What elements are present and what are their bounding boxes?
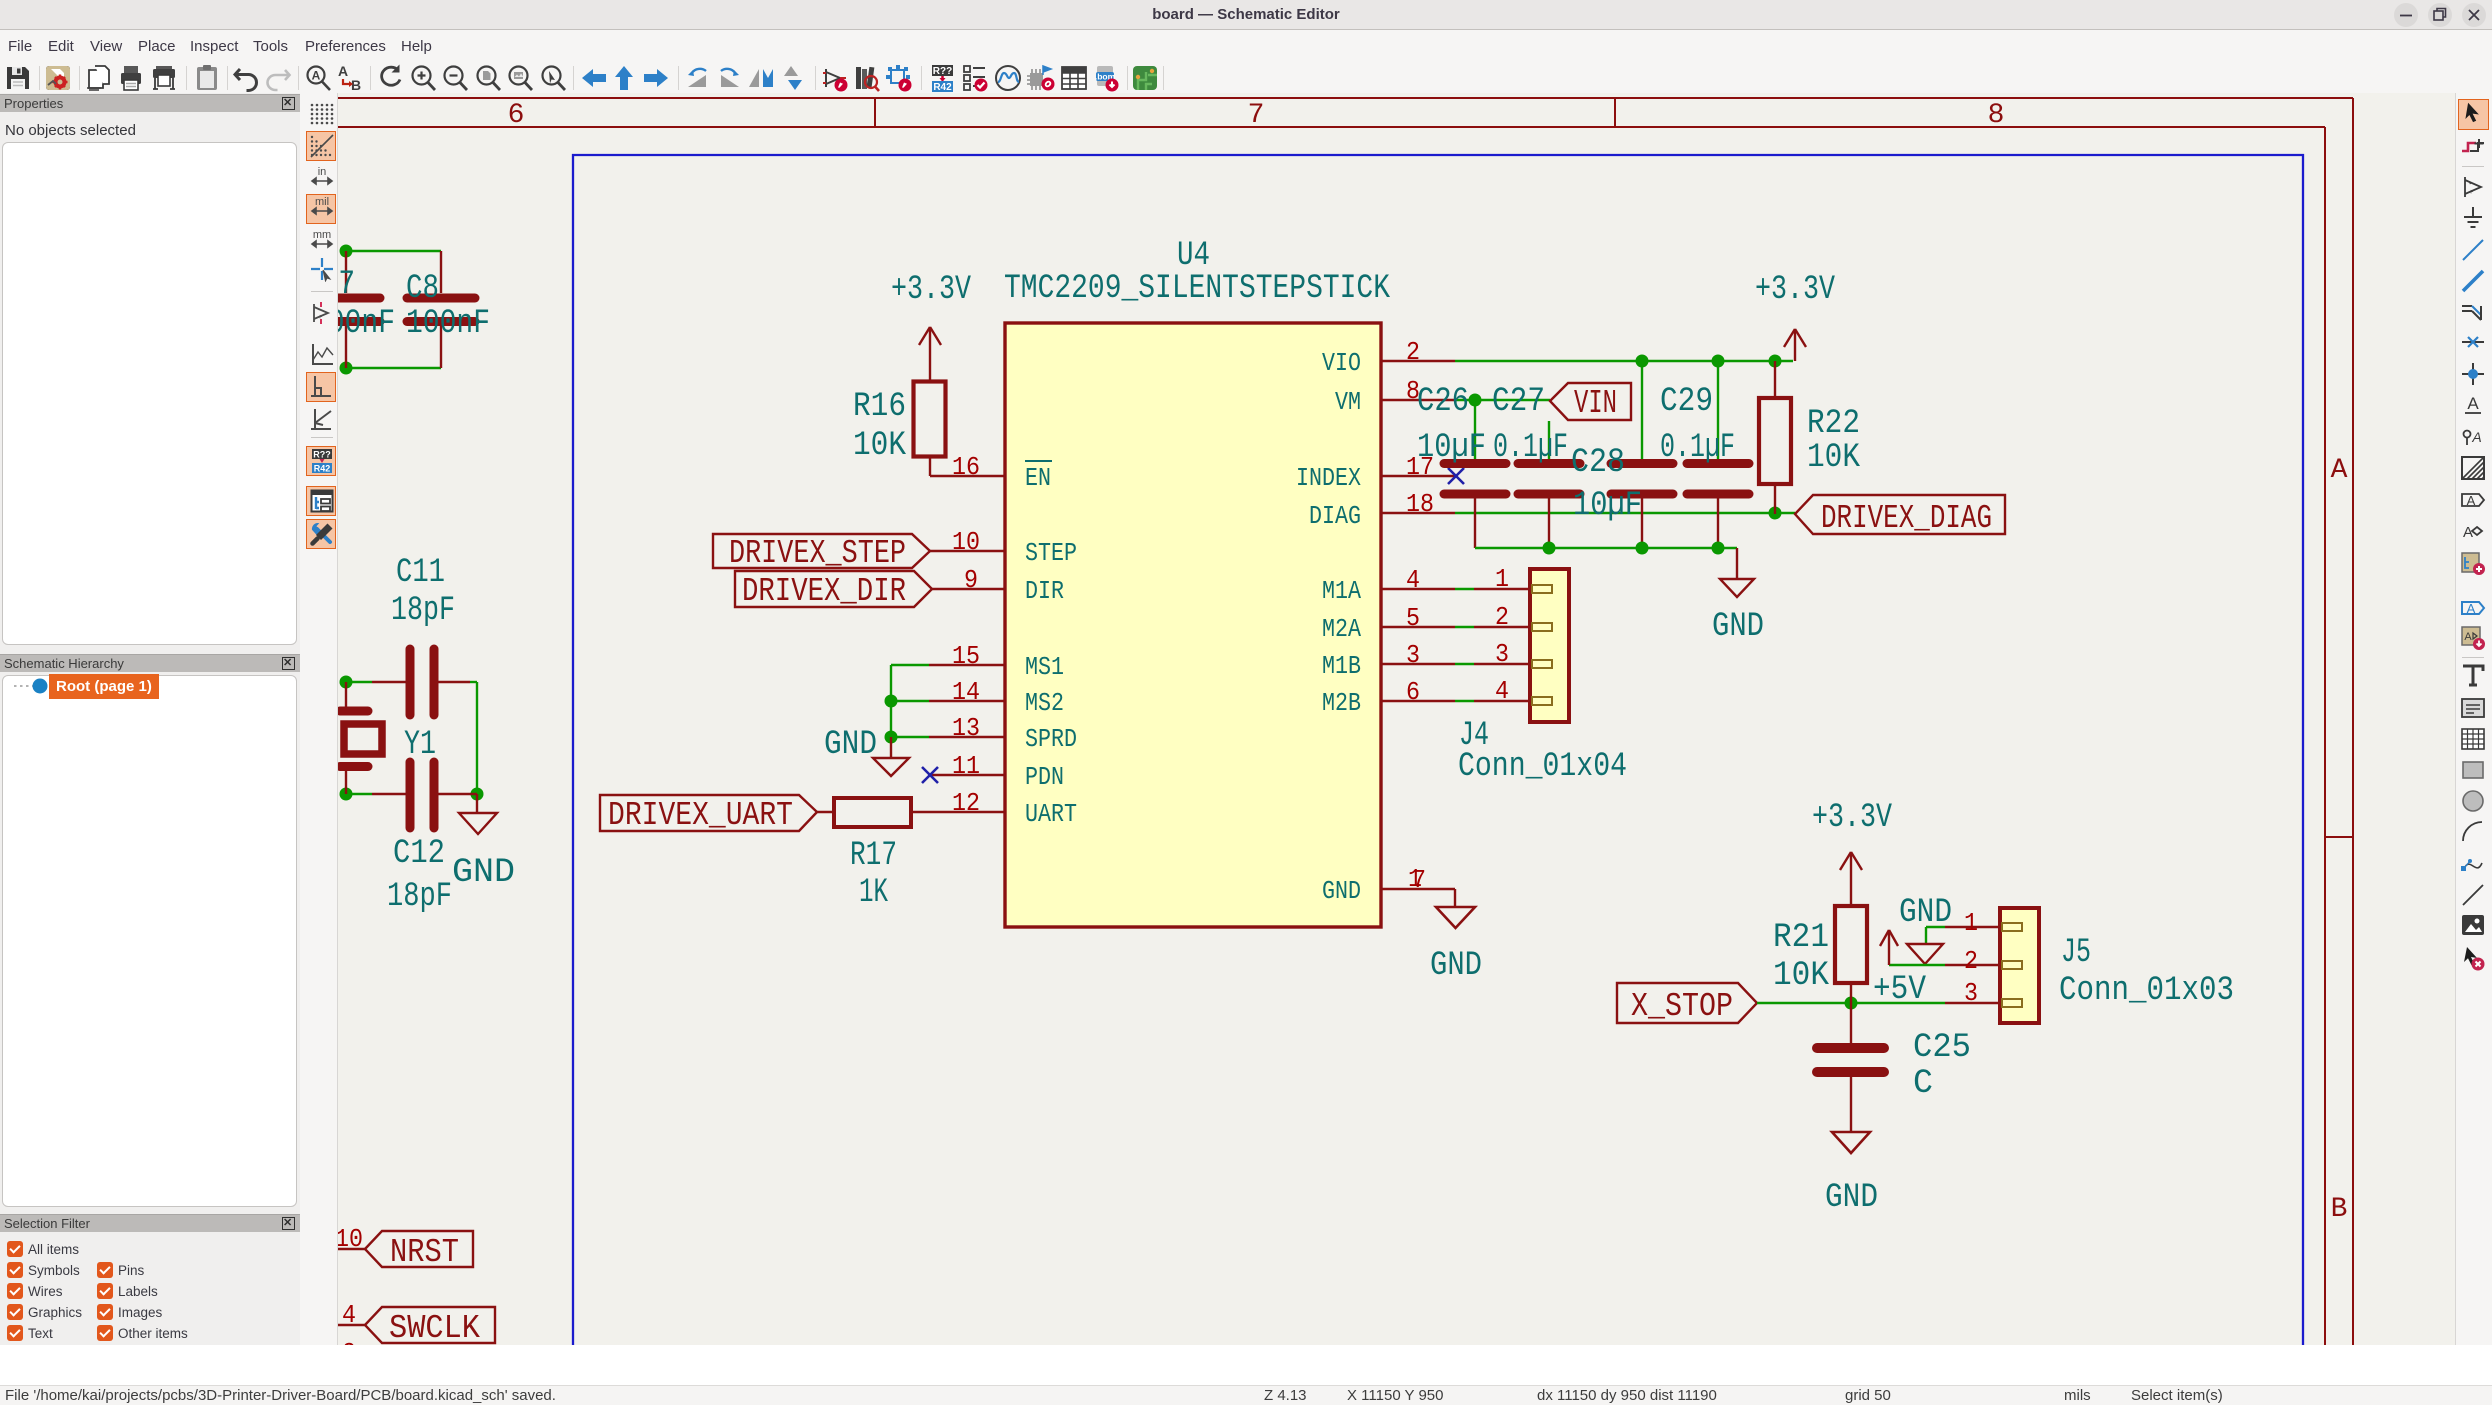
svg-text:DIR: DIR <box>1025 576 1064 606</box>
svg-text:R42: R42 <box>933 82 952 93</box>
svg-text:C12: C12 <box>393 835 445 873</box>
svg-text:GND: GND <box>1712 608 1764 646</box>
svg-text:+3.3V: +3.3V <box>1755 271 1835 309</box>
svg-text:UART: UART <box>1025 799 1077 829</box>
svg-text:+: + <box>2469 189 2473 196</box>
svg-text:5: 5 <box>1406 603 1420 633</box>
svg-text:DIAG: DIAG <box>1309 501 1361 531</box>
svg-text:A: A <box>312 69 321 83</box>
svg-text:4: 4 <box>342 1300 356 1330</box>
svg-text:6: 6 <box>1406 677 1420 707</box>
svg-text:A: A <box>2471 429 2481 445</box>
svg-text:GND: GND <box>1825 1179 1878 1217</box>
svg-text:C27: C27 <box>1492 383 1545 421</box>
svg-text:GND: GND <box>1430 947 1482 985</box>
svg-text:C11: C11 <box>396 554 445 592</box>
svg-text:SPRD: SPRD <box>1025 724 1077 754</box>
svg-text:mm: mm <box>313 229 331 241</box>
svg-text:R17: R17 <box>850 837 897 875</box>
svg-text:10: 10 <box>952 527 980 557</box>
svg-text:A: A <box>338 63 348 79</box>
svg-text:GND: GND <box>452 854 515 892</box>
svg-text:M1A: M1A <box>1322 576 1361 606</box>
svg-text:0.1µF: 0.1µF <box>1660 429 1735 467</box>
svg-text:R16: R16 <box>853 388 906 426</box>
svg-text:A: A <box>2467 493 2476 508</box>
svg-text:18pF: 18pF <box>391 592 455 630</box>
svg-text:M1B: M1B <box>1322 651 1361 681</box>
svg-text:DRIVEX_DIR: DRIVEX_DIR <box>742 573 906 610</box>
svg-text:4: 4 <box>1406 565 1420 595</box>
svg-text:GND: GND <box>1899 894 1952 932</box>
svg-text:VIO: VIO <box>1322 348 1361 378</box>
svg-text:STEP: STEP <box>1025 538 1077 568</box>
svg-text:3: 3 <box>1406 640 1420 670</box>
svg-text:DRIVEX_UART: DRIVEX_UART <box>608 797 793 834</box>
svg-text:10µF: 10µF <box>1573 487 1642 525</box>
svg-text:GND: GND <box>824 726 877 764</box>
svg-text:8: 8 <box>1988 100 2005 131</box>
svg-text:12: 12 <box>952 788 980 818</box>
svg-text:16: 16 <box>952 452 980 482</box>
svg-text:0.1µF: 0.1µF <box>1493 429 1568 467</box>
svg-text:VIN: VIN <box>1574 385 1617 422</box>
svg-text:A: A <box>2331 455 2348 486</box>
svg-text:10K: 10K <box>1773 957 1830 995</box>
svg-text:R??: R?? <box>933 66 952 77</box>
svg-text:18pF: 18pF <box>387 878 452 916</box>
svg-text:SWCLK: SWCLK <box>389 1310 480 1345</box>
svg-text:C25: C25 <box>1913 1029 1971 1067</box>
svg-text:A: A <box>2467 394 2479 413</box>
svg-text:C29: C29 <box>1660 383 1713 421</box>
svg-text:MS2: MS2 <box>1025 688 1064 718</box>
svg-text:M2A: M2A <box>1322 614 1361 644</box>
svg-text:+: + <box>318 314 322 321</box>
svg-text:Conn_01x03: Conn_01x03 <box>2059 972 2234 1010</box>
svg-text:+3.3V: +3.3V <box>891 271 971 309</box>
svg-text:1: 1 <box>1964 908 1978 938</box>
svg-text:NRST: NRST <box>390 1234 459 1271</box>
svg-text:MS1: MS1 <box>1025 652 1064 682</box>
svg-text:10K: 10K <box>853 427 907 465</box>
svg-text:100nF: 100nF <box>406 305 490 343</box>
svg-text:2: 2 <box>1406 337 1420 367</box>
svg-text:100nF: 100nF <box>338 305 395 343</box>
svg-text:PDN: PDN <box>1025 762 1064 792</box>
svg-text:INDEX: INDEX <box>1296 463 1361 493</box>
svg-text:10: 10 <box>338 1224 363 1254</box>
svg-text:15: 15 <box>952 641 980 671</box>
svg-text:B: B <box>2331 1194 2348 1225</box>
svg-text:+5V: +5V <box>1873 971 1927 1009</box>
svg-text:C28: C28 <box>1571 444 1625 482</box>
svg-text:DRIVEX_DIAG: DRIVEX_DIAG <box>1821 500 1992 537</box>
svg-text:7: 7 <box>1412 865 1426 895</box>
svg-text:C7: C7 <box>338 266 355 304</box>
svg-text:X_STOP: X_STOP <box>1631 988 1733 1025</box>
svg-text:R21: R21 <box>1773 919 1829 957</box>
svg-text:18: 18 <box>1406 489 1434 519</box>
svg-text:Conn_01x04: Conn_01x04 <box>1458 748 1627 786</box>
svg-text:A: A <box>2467 601 2476 616</box>
svg-text:R??: R?? <box>313 450 331 460</box>
svg-text:mil: mil <box>315 196 329 208</box>
svg-text:6: 6 <box>508 100 525 131</box>
svg-text:EN: EN <box>1025 463 1051 493</box>
svg-text:10µF: 10µF <box>1417 429 1486 467</box>
svg-text:A: A <box>2464 631 2472 643</box>
svg-text:Y1: Y1 <box>404 726 436 764</box>
svg-text:M2B: M2B <box>1322 688 1361 718</box>
svg-text:2: 2 <box>1964 946 1978 976</box>
svg-text:J5: J5 <box>2061 934 2091 972</box>
svg-text:GND: GND <box>1322 876 1361 906</box>
svg-text:C: C <box>1913 1065 1933 1103</box>
svg-text:DRIVEX_STEP: DRIVEX_STEP <box>729 535 906 572</box>
svg-text:3: 3 <box>1964 978 1978 1008</box>
svg-text:13: 13 <box>952 713 980 743</box>
svg-text:11: 11 <box>952 751 980 781</box>
svg-text:7: 7 <box>1248 100 1265 131</box>
svg-text:R42: R42 <box>314 464 331 474</box>
svg-text:10K: 10K <box>1807 439 1861 477</box>
svg-text:in: in <box>318 166 327 178</box>
svg-text:C8: C8 <box>406 270 439 308</box>
svg-text:A: A <box>2463 524 2473 541</box>
svg-text:+3.3V: +3.3V <box>1812 799 1892 837</box>
svg-text:C26: C26 <box>1417 383 1469 421</box>
svg-text:9: 9 <box>964 565 978 595</box>
svg-text:VM: VM <box>1335 387 1361 417</box>
svg-text:TMC2209_SILENTSTEPSTICK: TMC2209_SILENTSTEPSTICK <box>1004 270 1390 308</box>
svg-text:B: B <box>351 77 361 93</box>
svg-text:R22: R22 <box>1807 405 1860 443</box>
svg-text:2: 2 <box>342 1338 356 1345</box>
svg-text:14: 14 <box>952 677 980 707</box>
svg-text:1K: 1K <box>859 874 888 912</box>
